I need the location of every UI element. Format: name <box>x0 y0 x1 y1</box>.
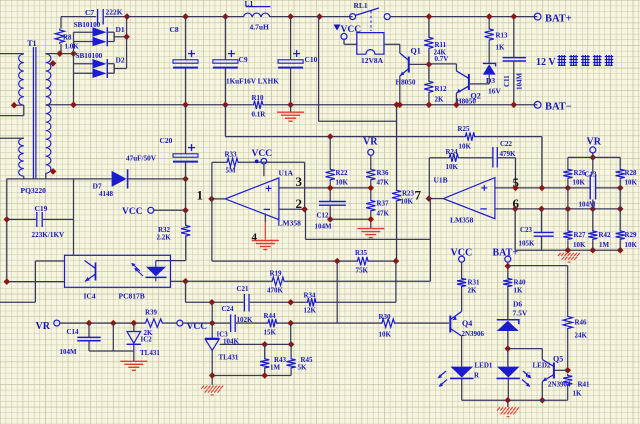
resistor R22 <box>326 168 335 182</box>
svg-text:C24: C24 <box>222 305 235 313</box>
wire Q1 base <box>409 63 429 65</box>
LED LED2 <box>497 367 520 379</box>
wire R26 bottom <box>567 180 569 209</box>
svg-text:BAT−: BAT− <box>545 102 572 113</box>
wire U1A output <box>212 198 226 200</box>
svg-text:R13: R13 <box>496 32 509 40</box>
wire c24 to r44 <box>236 322 267 324</box>
wire top bus middle <box>270 16 353 18</box>
svg-text:T1: T1 <box>27 39 36 48</box>
svg-text:10K: 10K <box>459 143 472 151</box>
svg-text:R8: R8 <box>63 34 72 42</box>
wire node1 down <box>211 199 213 261</box>
resistor R35 <box>356 257 370 265</box>
wire R26 top <box>567 157 569 167</box>
wire to R30 <box>337 322 380 324</box>
wire LED2 bottom <box>507 378 509 400</box>
capacitor C22 <box>493 147 497 168</box>
svg-text:5K: 5K <box>298 364 308 372</box>
junction pin3 R22 <box>327 185 334 192</box>
wire sense from top bus <box>318 17 320 122</box>
wire R40 to D6 <box>507 288 509 320</box>
transistor Q1 <box>400 53 409 76</box>
wire R13 top <box>488 17 490 28</box>
wire secondary bottom to D7 <box>7 178 112 180</box>
wire C12 to R37 ground <box>330 218 371 220</box>
resistor R11 <box>424 36 433 50</box>
wire R22 top <box>329 137 331 168</box>
terminal VR left <box>54 320 60 326</box>
resistor R45 <box>287 357 296 369</box>
junction BAT+ branch <box>505 263 512 270</box>
junction VCC U1A dot <box>255 160 259 164</box>
wire C23 bottom lead <box>541 236 543 250</box>
wire IC3 bottom lead <box>211 350 213 385</box>
wire D1 output <box>114 36 126 38</box>
junction primary W1 bottom <box>11 102 18 109</box>
wire vr row a <box>60 322 144 324</box>
junction D1 output <box>123 34 130 41</box>
capacitor C24 <box>231 315 236 333</box>
resistor R40 <box>503 277 512 288</box>
wire Q4 collector to LED1 <box>461 336 463 367</box>
ground LEDs <box>497 407 519 416</box>
wire rail ground lead <box>290 105 292 112</box>
junction R44 R45 branch <box>287 320 294 327</box>
wire pin6 net <box>495 208 620 210</box>
junction top bus <box>316 13 323 20</box>
svg-text:104M: 104M <box>579 201 597 209</box>
junction line A R22 <box>327 133 334 140</box>
wire Q2 emitter <box>455 93 457 105</box>
resistor R19 <box>271 277 286 285</box>
svg-text:R36: R36 <box>377 169 390 177</box>
svg-text:VCC: VCC <box>122 207 143 217</box>
resistor R43 <box>260 357 269 369</box>
wire D2 anode b <box>74 72 93 74</box>
svg-text:12 V: 12 V <box>536 57 556 68</box>
junction R11 top bus <box>426 13 433 20</box>
svg-text:R27: R27 <box>574 231 587 239</box>
wire R27 top lead <box>567 209 569 230</box>
junction pin6 R27 <box>565 206 572 213</box>
resistor R31 <box>457 277 466 288</box>
wire R45 top lead <box>290 344 292 357</box>
wire secondary bottom join <box>45 173 47 179</box>
wire R43 R45 bottom <box>212 375 291 377</box>
wire pin2 to U1B column <box>306 238 431 240</box>
svg-text:VR: VR <box>36 321 51 332</box>
svg-text:C14: C14 <box>67 328 80 336</box>
svg-text:R25: R25 <box>458 125 471 133</box>
diode D7 <box>112 169 128 188</box>
svg-text:U1B: U1B <box>434 176 448 185</box>
wire line A drop <box>224 105 226 137</box>
op-amp U1B minus input <box>480 208 486 210</box>
svg-text:75K: 75K <box>356 267 369 275</box>
wire C23 top lead <box>541 209 543 232</box>
wire C19 left <box>7 218 36 220</box>
optocoupler IC4 phototransistor <box>85 261 96 282</box>
wire C11 top lead <box>513 17 515 58</box>
wire line A to pin5 <box>541 137 543 188</box>
resistor R13 <box>485 28 494 42</box>
wire divider to Q2 collector b <box>455 64 457 71</box>
capacitor C11 <box>503 58 526 61</box>
wire D2 output <box>114 68 126 70</box>
capacitor C10 <box>278 50 303 68</box>
junction rail C9 <box>222 102 229 109</box>
wire R43 bottom lead <box>264 369 266 375</box>
wire IC4 emitter out a <box>35 260 64 262</box>
wire TL431 ref net <box>220 343 292 345</box>
junction pin6 R29 <box>617 206 624 213</box>
capacitor C14 <box>77 337 100 340</box>
wire VCC to coil b <box>344 43 357 45</box>
svg-text:BAT+: BAT+ <box>545 14 572 25</box>
wire IC2 top lead <box>133 323 135 331</box>
svg-text:47K: 47K <box>377 210 390 218</box>
junction IC3 column top <box>209 299 216 306</box>
junction rail rectifier <box>70 102 77 109</box>
wire R30 to Q4 base <box>396 322 449 324</box>
svg-text:VR: VR <box>587 137 602 148</box>
ground U1A <box>252 241 279 250</box>
capacitor C9 <box>213 50 238 68</box>
resistor R10 <box>252 101 264 109</box>
wire D2 cathode join <box>113 64 115 73</box>
svg-text:R42: R42 <box>599 231 612 239</box>
junction opto left <box>4 278 11 285</box>
svg-text:C22: C22 <box>500 140 513 148</box>
svg-text:R33: R33 <box>225 150 238 158</box>
svg-text:R39: R39 <box>145 309 158 317</box>
svg-text:2: 2 <box>296 196 303 211</box>
terminal VR mid <box>368 149 374 155</box>
optocoupler IC4 box <box>65 255 171 287</box>
resistor R39 <box>144 319 164 327</box>
resistor R37 <box>366 199 375 213</box>
resistor R29 <box>616 230 625 241</box>
ground IC2 <box>120 361 147 370</box>
svg-text:104M: 104M <box>60 348 78 356</box>
junction IC3 VCC node <box>209 320 216 327</box>
wire C20 top lead <box>185 105 187 154</box>
junction R8 bottom <box>57 50 64 57</box>
junction R12 rail <box>426 102 433 109</box>
svg-text:R23: R23 <box>402 190 415 198</box>
wire D2 cathode b <box>108 72 114 74</box>
wire R23 to feedback net <box>396 202 398 261</box>
junction pin5 R28 <box>617 185 624 192</box>
junction C19 left <box>4 216 11 223</box>
op-amp U1B plus input <box>481 185 487 191</box>
resistor R46 <box>563 315 572 330</box>
wire BAT+ to R46 b <box>567 266 569 315</box>
LED LED1 arrows <box>438 371 447 387</box>
ground rail <box>277 112 304 121</box>
svg-text:2N3906: 2N3906 <box>462 330 485 338</box>
wire primary W1 join <box>23 105 25 115</box>
svg-text:R19: R19 <box>270 270 283 278</box>
wire primary W1 bottom stub <box>14 104 24 106</box>
wire IC3 top lead <box>211 323 213 338</box>
svg-text:TL431: TL431 <box>219 354 239 362</box>
svg-text:G: G <box>526 372 532 380</box>
svg-text:C10: C10 <box>305 55 318 64</box>
svg-text:12K: 12K <box>304 307 317 315</box>
svg-text:PC817B: PC817B <box>119 292 145 301</box>
terminal BAT- <box>534 101 541 108</box>
wire R23 top <box>396 105 398 189</box>
junction top bus C7 <box>124 13 131 20</box>
wire R33 left <box>212 161 226 163</box>
svg-text:1M: 1M <box>270 364 281 372</box>
junction VR2 <box>590 154 597 161</box>
wire R32 bottom <box>185 238 187 261</box>
junction C12 ground net <box>327 216 334 223</box>
wire line A right <box>476 136 542 138</box>
wire R28 top <box>619 157 621 167</box>
optocoupler IC4 LED <box>146 261 167 282</box>
svg-text:4.7uH: 4.7uH <box>250 23 270 32</box>
wire R31 top lead <box>461 262 463 277</box>
wire line A <box>225 136 464 138</box>
svg-text:1K: 1K <box>514 287 524 295</box>
wire D1 anode a <box>74 31 93 33</box>
svg-text:L1: L1 <box>245 0 254 8</box>
wire C11 bottom lead <box>513 61 515 105</box>
svg-text:VCC: VCC <box>252 149 273 159</box>
wire C13 bottom lead <box>592 200 594 209</box>
wire C14 to IC2 bottom <box>89 350 134 352</box>
svg-text:7.5V: 7.5V <box>513 309 528 318</box>
wire R31 to Q4 emitter <box>461 288 463 312</box>
wire VCC to U1A <box>263 164 265 176</box>
wire branch to feedback <box>336 261 338 323</box>
svg-text:2K: 2K <box>435 96 445 104</box>
junction feedback R23 <box>393 258 400 265</box>
wire pin3 net <box>279 187 371 189</box>
wire D2 anode a <box>74 63 93 65</box>
wire D2 to D1 node <box>126 37 128 69</box>
wire R43 top lead <box>264 344 266 357</box>
svg-text:D2: D2 <box>116 56 125 65</box>
svg-text:C20: C20 <box>160 136 173 145</box>
wire IC3 from C21 node <box>211 302 213 323</box>
wire D3 anode <box>488 75 490 84</box>
junction gnd R42 <box>590 247 597 254</box>
wire R33 left vertical <box>211 162 213 199</box>
wire IC4 LED cathode out <box>171 280 186 282</box>
svg-text:LED2: LED2 <box>533 362 551 370</box>
junction pin6 C23 <box>538 206 545 213</box>
junction diode input node <box>70 50 77 57</box>
wire R42 bottom lead <box>592 241 594 250</box>
svg-text:R34: R34 <box>304 292 317 300</box>
terminal BAT+ 2 <box>505 256 511 262</box>
svg-text:TL431: TL431 <box>140 349 160 357</box>
wire R36 bottom <box>370 181 372 199</box>
wire C9 bottom lead <box>224 68 226 105</box>
svg-text:1KuF16V LXHK: 1KuF16V LXHK <box>226 78 279 86</box>
capacitor C19 <box>37 212 42 227</box>
svg-text:IC2: IC2 <box>141 336 153 344</box>
junction pin2 <box>301 206 308 213</box>
wire pin2 net <box>279 208 305 210</box>
op-amp U1B <box>443 178 495 219</box>
svg-text:15K: 15K <box>264 329 277 337</box>
junction Q1 emitter rail <box>397 102 404 109</box>
wire R19 row right <box>286 280 431 282</box>
capacitor C21 <box>244 294 249 312</box>
ground IC3 <box>201 386 223 395</box>
svg-text:C19: C19 <box>35 204 48 213</box>
wire divider to Q2 collector a <box>429 63 457 65</box>
svg-text:0.1R: 0.1R <box>252 111 267 119</box>
junction R43 top <box>261 341 268 348</box>
svg-text:D1: D1 <box>116 25 125 34</box>
wire secondary top join <box>45 52 47 55</box>
shunt regulator IC3 TL431 <box>205 338 220 350</box>
wire R42 top lead <box>592 209 594 230</box>
junction sense rail <box>393 102 400 109</box>
svg-text:LED1: LED1 <box>475 362 493 370</box>
junction secondary bottom mark <box>50 168 57 175</box>
inductor L1 core line <box>246 6 271 8</box>
junction LED gnd <box>505 397 512 404</box>
diode D2 <box>93 59 108 78</box>
junction rail C10 <box>287 102 294 109</box>
wire R45 bottom lead <box>290 369 292 375</box>
junction C21 R44 <box>287 299 294 306</box>
wire C22 to pin5 <box>515 158 517 188</box>
capacitor C23 <box>534 232 554 236</box>
junction R43 bottom <box>261 372 268 379</box>
svg-text:D6: D6 <box>513 300 522 309</box>
wire VCC terminal to node <box>154 209 186 211</box>
svg-text:479K: 479K <box>500 150 517 158</box>
svg-text:2K: 2K <box>468 287 478 295</box>
junction C11 top bus <box>511 13 518 20</box>
junction R11 R12 Q1 base <box>426 61 433 68</box>
wire C20 bottom lead <box>185 162 187 211</box>
svg-text:SB10100: SB10100 <box>74 21 101 29</box>
wire R24 left <box>429 157 448 159</box>
junction C14 branch <box>110 320 117 327</box>
wire primary stub <box>0 115 24 117</box>
wire D1 cathode b <box>108 41 114 43</box>
wire C7 top left <box>61 16 96 18</box>
wire IC4 emitter out c <box>0 301 35 303</box>
svg-text:2.2K: 2.2K <box>157 234 172 242</box>
wire feedback row left <box>212 260 356 262</box>
transistor Q2 <box>456 71 469 93</box>
LED LED1 <box>450 367 473 379</box>
svg-text:R28: R28 <box>625 169 638 177</box>
wire D2 cathode a <box>108 63 114 65</box>
wire primary W1 top stub <box>0 53 24 55</box>
wire sense horizontal <box>319 120 397 122</box>
wire D1 cathode join <box>113 32 115 41</box>
wire D1 anode b <box>74 41 93 43</box>
svg-text:10K: 10K <box>401 198 414 206</box>
svg-text:SB10100: SB10100 <box>76 52 103 60</box>
junction U1B output <box>426 195 433 202</box>
wire R8 top <box>60 17 62 29</box>
wire U1B output <box>429 198 443 200</box>
resistor R26 <box>563 168 572 180</box>
svg-text:16V: 16V <box>488 87 502 96</box>
wire R40 top lead <box>507 262 509 277</box>
svg-text:R24: R24 <box>446 148 459 156</box>
svg-text:Q1: Q1 <box>411 47 421 56</box>
terminal VR right <box>590 147 596 153</box>
wire C22 right <box>498 157 516 159</box>
wire IC4 collector up <box>73 179 75 255</box>
svg-text:U1A: U1A <box>279 169 294 178</box>
junction secondary tap mark <box>50 60 57 67</box>
junction C14 top <box>86 320 93 327</box>
svg-text:222K: 222K <box>106 8 123 17</box>
relay RL1 link dashes <box>370 11 372 31</box>
junction C11 rail <box>511 102 518 109</box>
svg-text:C9: C9 <box>239 55 248 64</box>
terminal VCC mid <box>148 207 154 213</box>
svg-text:10K: 10K <box>625 179 638 187</box>
svg-text:470K: 470K <box>267 287 284 295</box>
svg-text:R35: R35 <box>355 249 368 257</box>
svg-text:C7: C7 <box>85 8 94 17</box>
capacitor C8 <box>173 50 198 68</box>
wire vcc row c <box>183 322 230 324</box>
svg-text:R44: R44 <box>264 312 277 320</box>
terminal VCC U1A <box>261 158 267 164</box>
junction pin3 R36 <box>368 185 375 192</box>
wire D6 to LED2 <box>507 331 509 367</box>
wire Q5 emitter <box>541 382 543 401</box>
svg-text:R29: R29 <box>625 231 638 239</box>
svg-text:IC4: IC4 <box>84 292 96 301</box>
svg-text:104M: 104M <box>315 223 333 231</box>
svg-text:R12: R12 <box>435 85 448 93</box>
wire IC2 bottom lead <box>133 344 135 361</box>
wire R24 left vertical <box>428 158 430 199</box>
wire branch down <box>290 323 292 344</box>
wire D7 to C20 node <box>128 178 185 180</box>
resistor R24 <box>448 154 460 162</box>
svg-text:R37: R37 <box>377 200 390 208</box>
wire C14 branch vertical <box>112 323 114 351</box>
junction R37 C12 <box>368 216 375 223</box>
svg-text:223K/1KV: 223K/1KV <box>32 231 66 239</box>
wire Q5 collector a <box>508 348 543 350</box>
terminal relay contact left <box>350 14 356 20</box>
wire R12 bottom <box>428 94 430 105</box>
svg-text:47uF/50V: 47uF/50V <box>126 155 157 163</box>
svg-text:R31: R31 <box>468 279 481 287</box>
wire R37 bottom <box>370 212 372 228</box>
junction pin5 C22 <box>512 185 519 192</box>
junction C10 top <box>287 13 294 20</box>
junction LED2 Q5 <box>505 345 512 352</box>
svg-text:C12: C12 <box>317 212 330 220</box>
wire R41 bottom lead <box>567 386 569 400</box>
wire Q5 base lead <box>554 369 568 371</box>
svg-text:R30: R30 <box>379 313 392 321</box>
wire primary W2 bottom join <box>23 176 25 179</box>
wire feedback to pin2 <box>304 162 306 209</box>
